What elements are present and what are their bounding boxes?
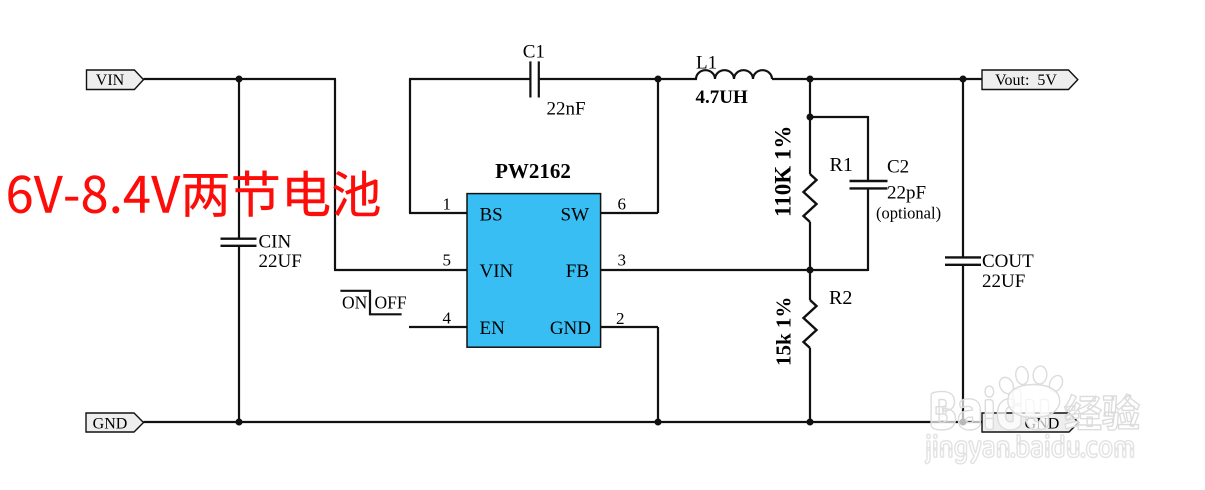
capacitor C1 (530, 61, 538, 97)
svg-text:PW2162: PW2162 (495, 159, 571, 183)
wire COUT lower vertical (962, 265, 964, 422)
label R2 (829, 287, 852, 309)
wire CIN upper vertical (238, 79, 240, 238)
capacitor C2 (850, 181, 888, 188)
node junction GND/U1 (655, 419, 662, 426)
svg-text:VIN: VIN (480, 261, 514, 282)
wire GND pin2 horizontal (600, 326, 658, 328)
text annotation 6V-8.4V two-cell battery (red) (8, 171, 380, 217)
wire R1 top vertical (809, 79, 811, 117)
label R1 (830, 154, 853, 176)
svg-text:GND: GND (93, 416, 128, 433)
IC U1 PW2162 body (467, 194, 601, 348)
node junction L1/R1 (807, 76, 814, 83)
svg-text:FB: FB (566, 261, 589, 282)
capacitor COUT (945, 257, 981, 264)
net tag GND right (982, 413, 1079, 433)
value label 22pF (C2) (887, 183, 926, 204)
value label 4.7UH (L1) (696, 87, 748, 108)
label PW2162 (495, 159, 571, 183)
svg-text:1: 1 (443, 194, 452, 213)
wire SW pin6 horizontal (600, 212, 658, 214)
svg-text:C1: C1 (523, 41, 545, 62)
wire CIN lower vertical (238, 246, 240, 422)
svg-text:C2: C2 (887, 157, 909, 178)
wire C2 lower vertical (867, 188, 869, 271)
pin number 6 (618, 194, 627, 213)
label CIN (259, 232, 292, 253)
pin number 4 (443, 309, 452, 328)
svg-text:BS: BS (480, 205, 503, 226)
net tag VIN (87, 70, 144, 90)
svg-text:110K 1%: 110K 1% (771, 126, 796, 217)
svg-text:5: 5 (443, 251, 452, 270)
node junction VIN/CIN (236, 76, 243, 83)
svg-text:GND: GND (550, 318, 591, 339)
label COUT (982, 251, 1034, 272)
resistor R1 (804, 117, 817, 270)
node junction R1/C2 top (807, 114, 814, 121)
value label 22nF (C1) (547, 99, 586, 120)
wire L1 to Vout horizontal (772, 78, 982, 80)
pin label BS (480, 205, 503, 226)
pin label FB (566, 261, 589, 282)
svg-text:L1: L1 (696, 53, 717, 74)
pin label EN (480, 318, 506, 339)
svg-text:EN: EN (480, 318, 506, 339)
node junction FB/R1/R2 (807, 267, 814, 274)
svg-text:COUT: COUT (982, 251, 1034, 272)
value label 15k 1% (R2) (772, 297, 796, 366)
wire C1 right horizontal (539, 78, 697, 80)
svg-text:22pF: 22pF (887, 183, 926, 204)
inductor L1 (696, 70, 772, 79)
svg-text:22nF: 22nF (547, 99, 586, 120)
wire GND net vertical (657, 327, 659, 422)
wire C2 top horizontal (810, 116, 868, 118)
node junction Vout/COUT (960, 76, 967, 83)
wire EN pin4 horizontal (409, 326, 467, 328)
wire GND bottom rail (144, 421, 983, 423)
node junction GND/COUT (960, 419, 967, 426)
watermark Baidu Jingyan logo (925, 365, 1140, 463)
svg-text:22UF: 22UF (259, 251, 302, 272)
node junction GND/R2 (807, 419, 814, 426)
pin label SW (561, 205, 590, 226)
wire C1 left horizontal (409, 78, 530, 80)
pin number 3 (618, 251, 627, 270)
svg-text:4.7UH: 4.7UH (696, 87, 748, 108)
svg-text:4: 4 (443, 309, 452, 328)
wire BS net vertical (409, 79, 411, 213)
svg-text:VIN: VIN (96, 72, 125, 89)
svg-text:R2: R2 (829, 287, 852, 309)
wire C2 upper vertical (867, 116, 869, 181)
pin number 5 (443, 251, 452, 270)
wire SW net vertical (657, 79, 659, 213)
svg-text:6: 6 (618, 194, 627, 213)
net tag Vout 5V (982, 70, 1078, 90)
svg-text:15k 1%: 15k 1% (772, 297, 796, 366)
pin label GND (U1) (550, 318, 591, 339)
svg-text:22UF: 22UF (982, 271, 1025, 292)
switch annotation ON/OFF (340, 291, 406, 315)
svg-text:(optional): (optional) (876, 204, 941, 223)
wire COUT upper vertical (962, 79, 964, 257)
svg-text:Vout: 5V: Vout: 5V (995, 72, 1057, 89)
wire BS pin1 horizontal (409, 212, 467, 214)
value label 22UF (CIN) (259, 251, 302, 272)
svg-text:ON: ON (342, 292, 368, 312)
label C1 (523, 41, 545, 62)
label C2 (887, 157, 909, 178)
wire VIN pin5 horizontal (334, 269, 467, 271)
svg-text:SW: SW (561, 205, 590, 226)
capacitor CIN (221, 239, 257, 246)
pin label VIN (U1) (480, 261, 514, 282)
resistor R2 (804, 270, 817, 422)
pin number 2 (616, 309, 625, 328)
wire VIN top horizontal (144, 78, 337, 80)
node junction SW/C1/L1 (655, 76, 662, 83)
node junction GND/CIN (236, 419, 243, 426)
pin number 1 (443, 194, 452, 213)
svg-text:2: 2 (616, 309, 625, 328)
svg-text:3: 3 (618, 251, 627, 270)
value label 22UF (COUT) (982, 271, 1025, 292)
label L1 (696, 53, 717, 74)
value label 110K 1% (R1) (771, 126, 796, 217)
svg-text:CIN: CIN (259, 232, 292, 253)
note label optional (C2) (876, 204, 941, 223)
svg-text:OFF: OFF (375, 292, 407, 312)
wire FB pin3 horizontal (600, 269, 868, 271)
net tag GND left (86, 413, 144, 433)
wire VIN right vertical (334, 79, 336, 270)
svg-text:R1: R1 (830, 154, 853, 176)
